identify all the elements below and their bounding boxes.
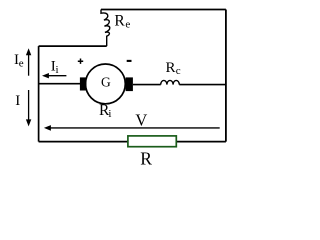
svg-text:i: i [108,108,111,120]
minus terminal [127,60,132,62]
svg-text:R: R [166,60,176,76]
wire armature right [133,84,161,86]
label Ie [14,52,24,70]
svg-text:R: R [140,149,152,169]
svg-text:e: e [19,58,24,70]
svg-text:c: c [176,65,181,77]
svg-text:I: I [15,93,20,109]
voltage arrow V [44,125,220,131]
wire bottom [39,141,226,143]
label Ri [99,102,111,120]
wire top [101,9,226,11]
current arrow I [26,90,31,126]
brush right [126,77,133,91]
wire Rc to right [179,84,226,86]
label Rc [166,60,181,77]
brush left [80,77,87,90]
label Ii [51,58,59,76]
svg-text:e: e [125,19,130,31]
wire left [38,46,40,142]
inductor Rc [161,80,180,84]
wire right [225,10,227,142]
svg-text:G: G [101,75,111,90]
inductor Re [101,10,110,47]
wire armature left [39,83,81,85]
generator G [86,64,126,104]
svg-text:V: V [135,110,147,129]
plus terminal [78,59,83,64]
svg-text:i: i [56,64,59,76]
current arrow Ie [26,48,31,75]
svg-text:R: R [114,13,125,30]
label Re [114,13,130,31]
current arrow Ii [42,73,66,78]
resistor R [128,136,176,147]
wire field top [39,45,107,47]
